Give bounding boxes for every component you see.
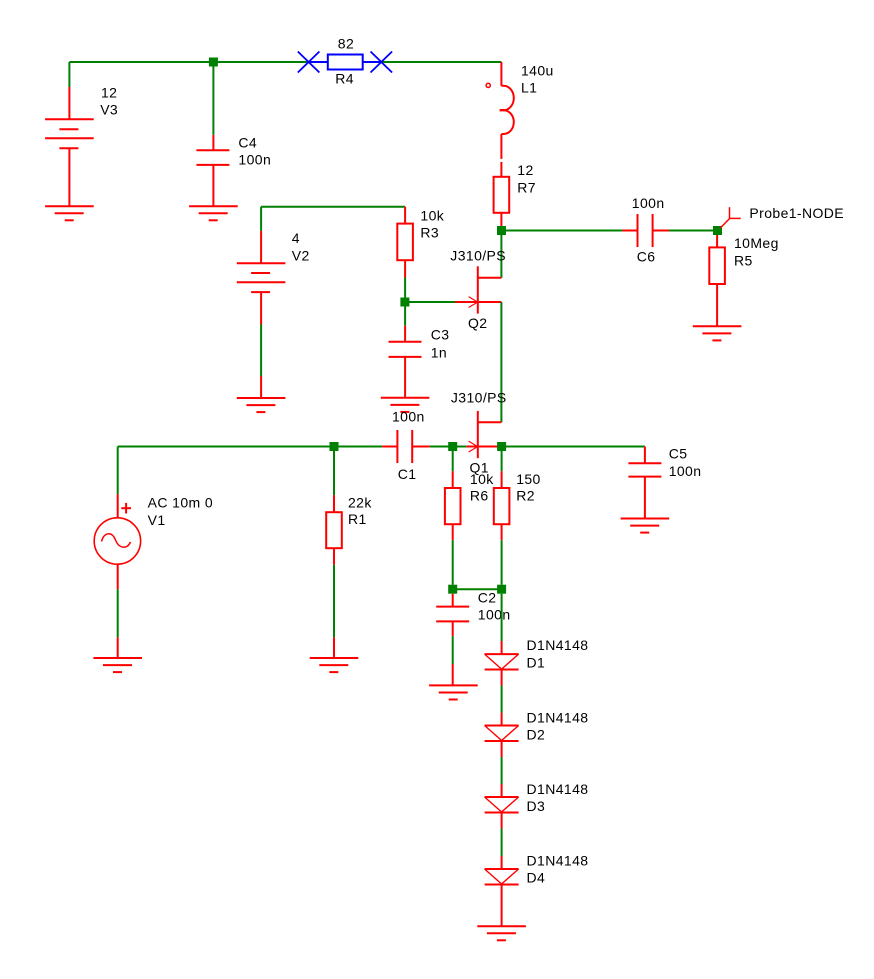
capacitor C4 [196,135,229,206]
svg-text:Probe1-NODE: Probe1-NODE [749,205,844,221]
resistor R7 [494,162,510,227]
wire [501,686,503,713]
wire [452,451,454,471]
ground stub (V1) [117,637,119,658]
ground (under V2) [237,398,286,412]
wire [502,230,623,232]
node junction (C1 / R6 / Q1 gate) [448,442,457,451]
svg-text:D1N4148: D1N4148 [527,781,589,797]
wire [381,61,501,63]
node junction (V1 / R1 / C1) [330,442,339,451]
svg-text:4: 4 [292,230,300,246]
wire (Q2 source to Q1 drain) [500,302,502,422]
ground (under V3) [45,206,94,220]
diode D1 [485,641,519,686]
svg-text:100n: 100n [632,195,665,211]
svg-text:D1N4148: D1N4148 [527,852,589,868]
wire [69,61,308,63]
svg-text:V1: V1 [148,512,166,528]
ground (under C4) [189,206,238,220]
svg-text:100n: 100n [392,409,425,425]
wire [261,206,405,208]
svg-text:D4: D4 [527,870,546,886]
wire [452,636,454,664]
svg-text:D2: D2 [527,727,546,743]
svg-text:1n: 1n [431,345,447,361]
svg-text:AC 10m 0: AC 10m 0 [148,495,213,511]
transistor Q1 J310/PS JFET [466,411,501,458]
svg-text:R4: R4 [335,71,354,87]
svg-text:10k: 10k [420,208,444,224]
inductor L1 [486,62,514,159]
svg-text:D1N4148: D1N4148 [527,709,589,725]
wire [501,540,503,585]
capacitor C6 [622,214,669,247]
wire [502,446,645,448]
wire (main input net) [118,446,383,448]
node junction top [209,58,218,67]
svg-text:R3: R3 [420,225,439,241]
svg-text:82: 82 [338,36,354,52]
svg-text:C1: C1 [398,466,417,482]
resistor R1 [326,495,342,565]
svg-text:C3: C3 [431,327,450,343]
node junction (R2 / diode chain row) [497,585,506,594]
node junction (R6 / C2 row) [448,585,457,594]
wire [452,540,454,585]
wire [453,588,502,590]
wire [500,231,502,278]
capacitor C1 [382,430,430,463]
capacitor C5 [628,447,661,519]
svg-text:10k: 10k [470,471,494,487]
svg-text:C6: C6 [637,248,656,264]
svg-text:D1: D1 [527,654,546,670]
wire [68,62,70,87]
svg-text:12: 12 [101,84,117,100]
node junction (Q1 source / R2 / C5) [497,442,506,451]
diode D2 [485,713,519,758]
svg-text:10Meg: 10Meg [734,235,779,251]
svg-text:R2: R2 [516,487,535,503]
wire [404,307,406,326]
capacitor C3 [389,326,422,398]
wire [430,446,467,448]
svg-text:V2: V2 [292,248,310,264]
node junction (C6 / R5 / probe) [713,226,722,235]
wire [117,589,119,637]
svg-text:C2: C2 [478,589,497,605]
svg-text:100n: 100n [238,152,271,168]
AC source V1 [94,494,140,589]
wire [333,565,335,638]
svg-text:100n: 100n [669,463,702,479]
ground (under R1) [310,658,359,672]
svg-text:J310/PS: J310/PS [450,247,506,263]
svg-text:C4: C4 [238,134,257,150]
diode D4 [485,856,519,926]
wire [260,325,262,377]
ground (under D4) [477,926,526,940]
ground (under C5) [621,519,670,533]
svg-text:D3: D3 [527,798,546,814]
ground (under C3) [381,398,430,412]
wire [501,757,503,784]
probe Probe1-NODE [720,207,740,228]
svg-text:Q2: Q2 [468,315,487,331]
svg-text:J310/PS: J310/PS [451,389,507,405]
svg-text:D1N4148: D1N4148 [527,637,589,653]
ground (under R5) [693,326,742,340]
svg-text:12: 12 [517,162,533,178]
capacitor C2 [436,594,469,637]
node junction (R3 / C3 / Q2 gate) [400,298,409,307]
wire [501,451,503,471]
ground stub (C2) [452,664,454,685]
wire [260,207,262,231]
resistor R5 [709,235,725,326]
svg-text:L1: L1 [521,80,537,96]
resistor R3 [397,207,413,278]
wire [501,829,503,857]
svg-text:150: 150 [516,471,541,487]
svg-text:R5: R5 [734,252,753,268]
svg-text:140u: 140u [521,62,554,78]
wire [404,278,406,303]
resistor R4 (disabled, blue with X marks) [298,52,392,73]
wire [669,230,718,232]
resistor R2 [494,471,510,540]
svg-text:R6: R6 [470,487,489,503]
svg-text:22k: 22k [348,495,372,511]
svg-text:C5: C5 [669,445,688,461]
svg-text:V3: V3 [100,102,118,118]
svg-text:R7: R7 [517,179,536,195]
battery V3 [45,87,94,206]
transistor Q2 J310/PS JFET [455,266,501,313]
wire [117,447,119,495]
ground stub (V2) [260,376,262,398]
diode D3 [485,784,519,829]
wire [333,451,335,495]
svg-text:100n: 100n [478,607,511,623]
resistor R6 [445,471,461,540]
svg-text:R1: R1 [348,511,367,527]
ground (under C2) [429,685,478,699]
wire [501,594,503,641]
wire [405,301,455,303]
ground (under V1) [93,658,142,672]
wire [212,62,214,135]
ground stub (R1) [333,637,335,658]
node junction (R7 bottom / C6 / Q2 drain) [497,226,506,235]
battery V2 [237,231,286,325]
